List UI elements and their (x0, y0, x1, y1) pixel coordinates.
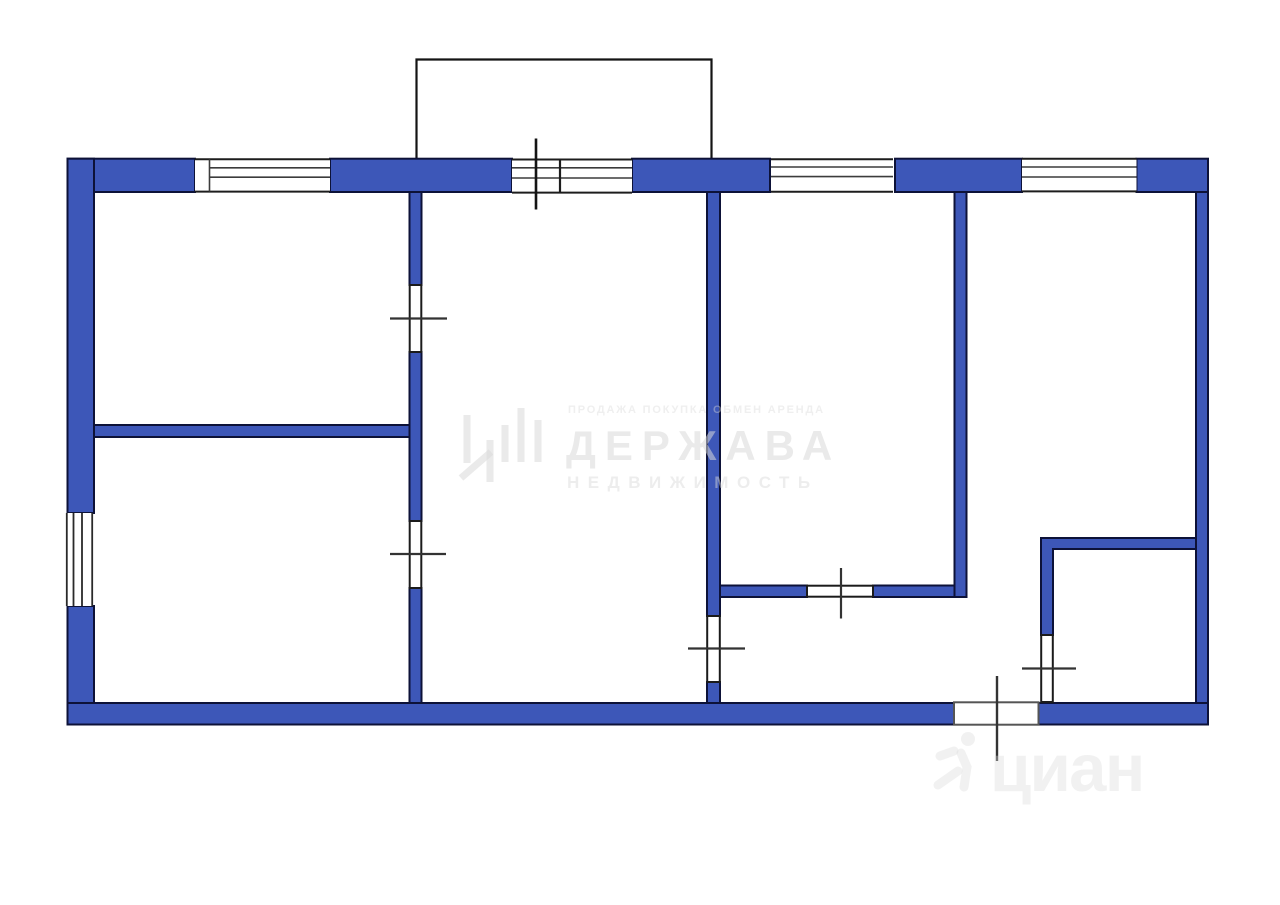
svg-text:НЕДВИЖИМОСТЬ: НЕДВИЖИМОСТЬ (567, 473, 819, 492)
svg-text:ПРОДАЖА ПОКУПКА ОБМЕН АРЕНД: ПРОДАЖА ПОКУПКА ОБМЕН АРЕНДА (568, 404, 825, 416)
svg-text:циан: циан (990, 731, 1144, 806)
svg-text:ДЕРЖАВА: ДЕРЖАВА (566, 422, 841, 469)
